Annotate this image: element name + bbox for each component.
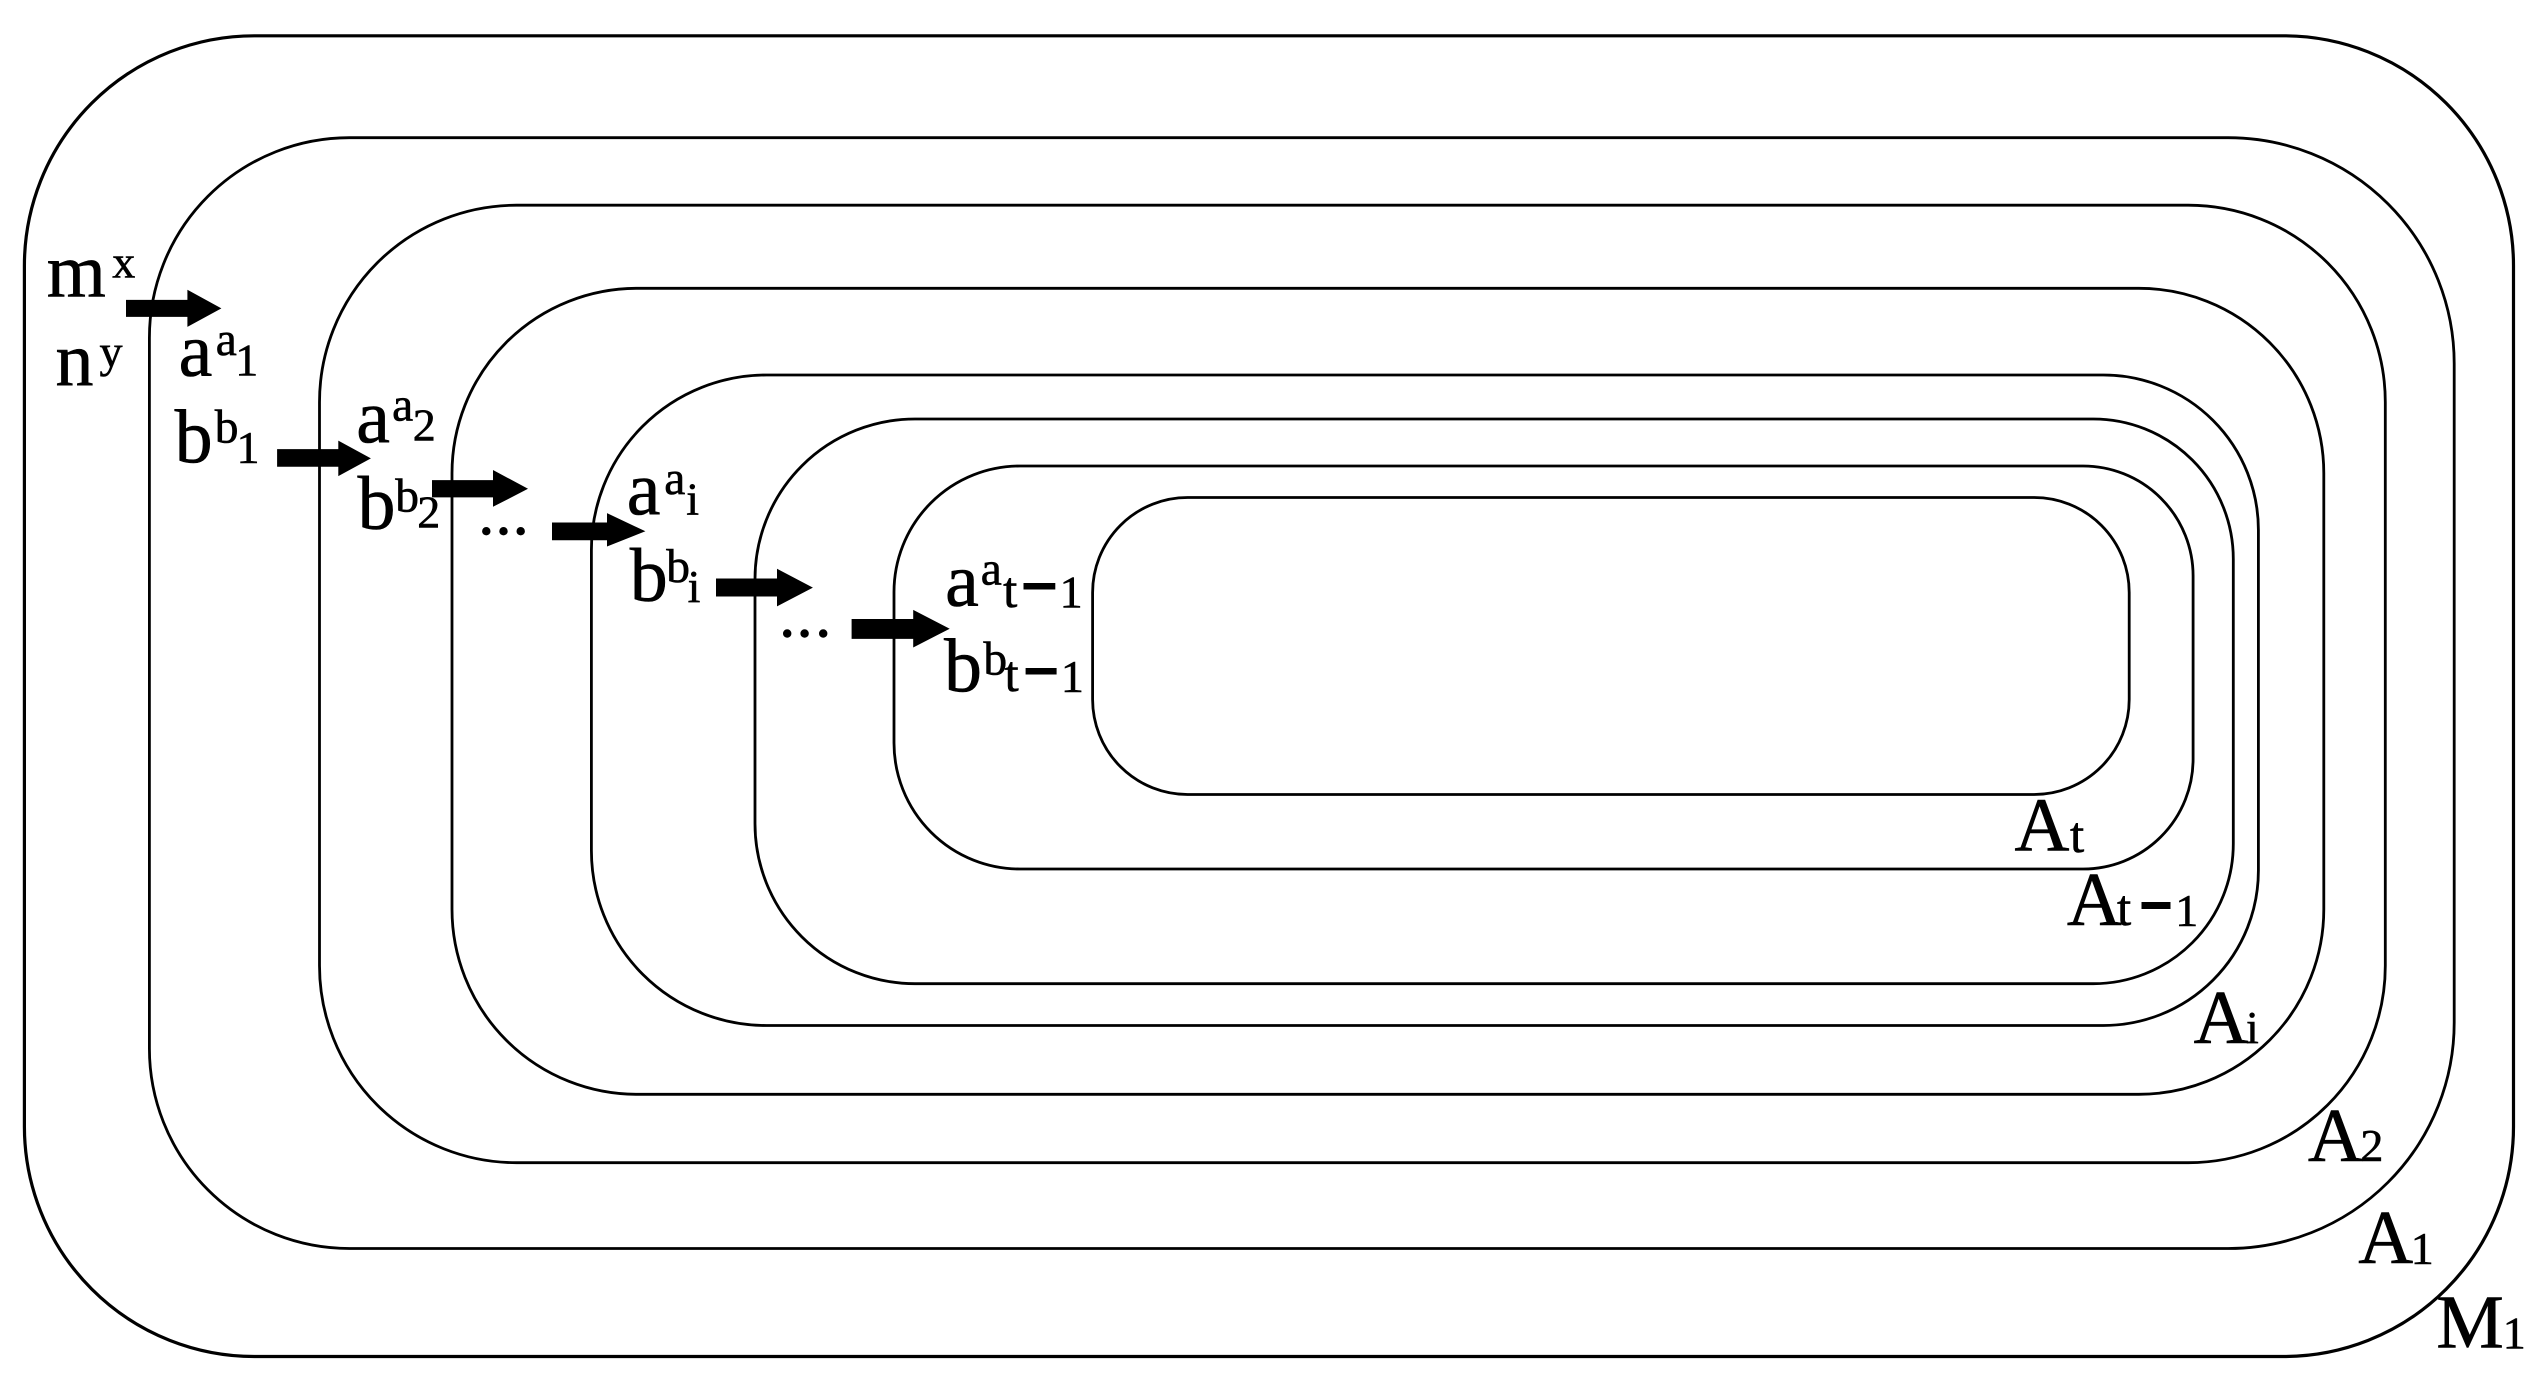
svg-text:i: i [688, 561, 701, 612]
svg-text:t: t [2117, 881, 2131, 937]
svg-text:A: A [2308, 1094, 2363, 1178]
box innermost unlabeled [1093, 498, 2130, 795]
svg-text:a: a [981, 543, 1002, 595]
svg-text:A: A [2015, 784, 2070, 868]
box At-1 [755, 419, 2233, 984]
svg-text:a: a [664, 453, 685, 505]
svg-text:1: 1 [235, 335, 258, 386]
svg-text:t: t [2070, 808, 2084, 864]
svg-text:a: a [945, 539, 979, 623]
svg-text:A: A [2194, 976, 2249, 1060]
svg-text:b: b [358, 462, 396, 546]
svg-text:1: 1 [2175, 885, 2198, 936]
svg-text:1: 1 [1060, 567, 1083, 618]
svg-text:n: n [56, 318, 94, 402]
arrow 3 (b2 rightward) [432, 470, 528, 507]
svg-text:m: m [47, 230, 106, 314]
box Ai [591, 375, 2258, 1026]
arrow 6 (to at-1) [852, 610, 950, 648]
arrow 5 (bi rightward) [716, 569, 813, 607]
arrow 1 (m,n to a1,b1) [126, 290, 221, 327]
svg-text:b: b [630, 534, 668, 618]
svg-text:i: i [2246, 1002, 2259, 1053]
box At [894, 466, 2193, 869]
svg-text:i: i [686, 474, 699, 525]
svg-text:1: 1 [2503, 1307, 2526, 1358]
svg-text:t: t [1005, 647, 1019, 703]
svg-text:1: 1 [237, 422, 260, 473]
svg-text:y: y [100, 326, 123, 377]
svg-text:a: a [356, 376, 390, 460]
svg-text:b: b [175, 396, 213, 480]
svg-text:b: b [215, 402, 239, 454]
svg-text:2: 2 [2360, 1120, 2383, 1171]
svg-text:t: t [1003, 563, 1017, 619]
svg-text:b: b [944, 625, 982, 709]
svg-text:1: 1 [2411, 1223, 2434, 1274]
ellipsis dots 1 [482, 527, 490, 535]
svg-text:A: A [2358, 1196, 2413, 1280]
svg-text:b: b [395, 470, 419, 522]
svg-text:M: M [2436, 1280, 2504, 1364]
svg-text:2: 2 [413, 399, 436, 450]
ellipsis dots 2 [783, 629, 791, 637]
svg-text:A: A [2067, 858, 2122, 942]
svg-text:a: a [216, 314, 237, 366]
svg-text:x: x [112, 237, 135, 288]
box A2 [320, 205, 2386, 1162]
box unlabeled between A2 and Ai [452, 288, 2324, 1094]
svg-text:a: a [179, 309, 213, 393]
box A1 [149, 138, 2454, 1249]
svg-text:1: 1 [1061, 651, 1084, 702]
svg-text:a: a [392, 380, 413, 432]
arrow 4 (to ai) [552, 513, 645, 546]
arrow 2 (b1 to a2) [277, 441, 371, 477]
svg-text:b: b [666, 541, 690, 593]
svg-text:a: a [627, 447, 661, 531]
